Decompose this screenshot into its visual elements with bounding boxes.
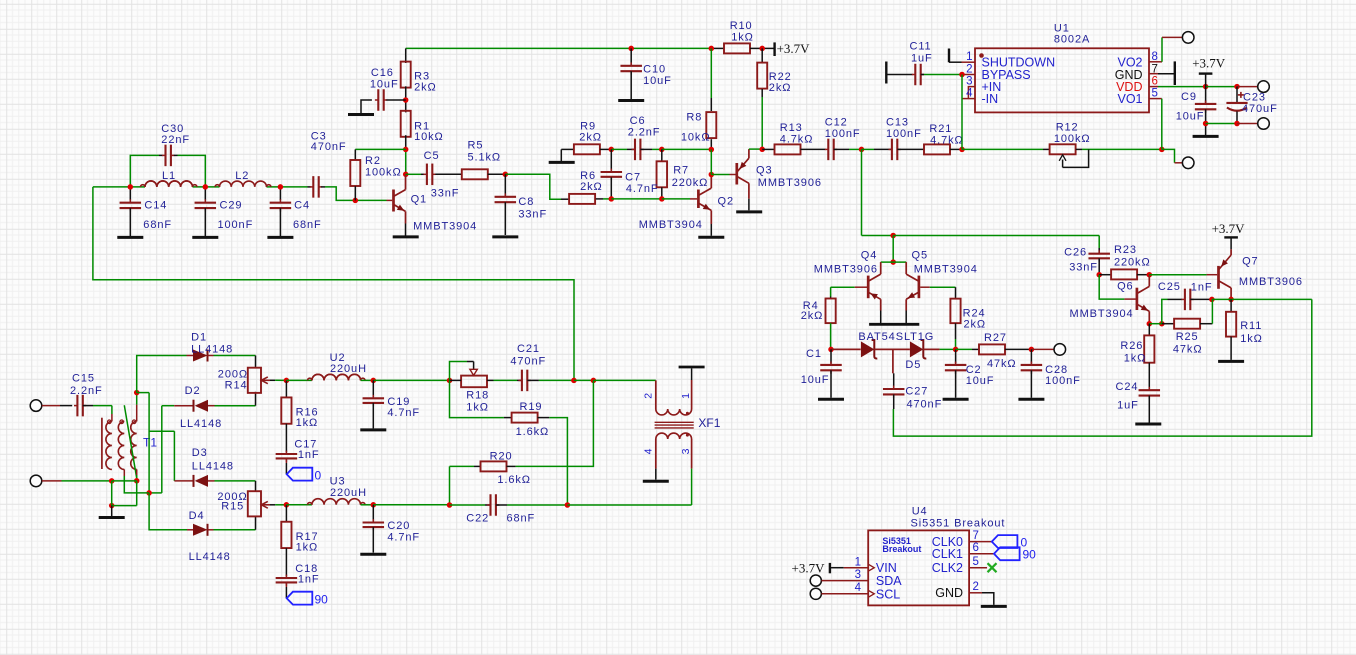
svg-text:C1: C1	[806, 348, 822, 360]
svg-text:2.2nF: 2.2nF	[70, 385, 103, 397]
svg-text:BAT54SLT1G: BAT54SLT1G	[858, 331, 934, 343]
svg-text:R11: R11	[1240, 320, 1262, 332]
svg-text:7: 7	[1152, 63, 1158, 75]
svg-text:2kΩ: 2kΩ	[579, 132, 602, 144]
svg-text:33nF: 33nF	[518, 208, 547, 220]
svg-text:10uF: 10uF	[801, 374, 830, 386]
svg-text:5.1kΩ: 5.1kΩ	[468, 152, 502, 164]
svg-text:R10: R10	[730, 20, 753, 32]
svg-text:3: 3	[855, 569, 861, 581]
svg-text:1.6kΩ: 1.6kΩ	[516, 426, 550, 438]
svg-text:2kΩ: 2kΩ	[964, 318, 987, 330]
svg-text:4: 4	[966, 87, 973, 99]
svg-text:MMBT3904: MMBT3904	[914, 263, 978, 275]
svg-text:D1: D1	[191, 331, 207, 343]
svg-text:Q5: Q5	[912, 249, 928, 261]
svg-text:4.7nF: 4.7nF	[387, 531, 420, 543]
svg-text:-IN: -IN	[982, 92, 999, 106]
svg-text:L2: L2	[235, 170, 249, 182]
svg-text:470nF: 470nF	[311, 141, 347, 153]
svg-text:R20: R20	[490, 450, 513, 462]
svg-text:R13: R13	[780, 122, 803, 134]
svg-text:CLK2: CLK2	[932, 561, 963, 575]
svg-text:10uF: 10uF	[1176, 110, 1205, 122]
svg-text:2kΩ: 2kΩ	[580, 181, 603, 193]
svg-text:C27: C27	[905, 386, 928, 398]
svg-text:C11: C11	[910, 40, 932, 52]
svg-text:R26: R26	[1120, 340, 1143, 352]
svg-text:R12: R12	[1056, 121, 1079, 133]
svg-text:100nF: 100nF	[886, 128, 922, 140]
svg-text:1kΩ: 1kΩ	[466, 402, 489, 414]
svg-text:4.7nF: 4.7nF	[626, 183, 659, 195]
svg-text:6: 6	[973, 542, 979, 554]
svg-text:C26: C26	[1064, 246, 1087, 258]
svg-text:1kΩ: 1kΩ	[1240, 333, 1263, 345]
svg-text:1uF: 1uF	[1117, 399, 1139, 411]
svg-text:68nF: 68nF	[507, 513, 536, 525]
svg-text:R5: R5	[468, 140, 484, 152]
svg-text:D4: D4	[189, 510, 205, 522]
svg-text:R21: R21	[929, 123, 952, 135]
svg-text:R9: R9	[580, 120, 596, 132]
svg-text:100kΩ: 100kΩ	[1054, 133, 1091, 145]
svg-text:VO1: VO1	[1117, 92, 1142, 106]
svg-text:U3: U3	[330, 476, 346, 488]
svg-text:LL4148: LL4148	[191, 344, 233, 356]
svg-text:R27: R27	[984, 332, 1007, 344]
svg-text:U4: U4	[912, 505, 928, 517]
svg-text:MMBT3906: MMBT3906	[758, 177, 822, 189]
svg-text:C29: C29	[220, 199, 243, 211]
svg-text:MMBT3904: MMBT3904	[639, 219, 703, 231]
svg-text:D3: D3	[192, 447, 208, 459]
svg-text:Q3: Q3	[756, 164, 772, 176]
svg-text:Si5351 Breakout: Si5351 Breakout	[911, 518, 1006, 530]
svg-text:90: 90	[315, 593, 329, 607]
svg-text:8002A: 8002A	[1054, 33, 1090, 45]
svg-text:C12: C12	[825, 117, 848, 129]
svg-text:2kΩ: 2kΩ	[801, 310, 824, 322]
svg-text:1: 1	[966, 51, 972, 63]
svg-text:C23: C23	[1243, 91, 1266, 103]
svg-text:L1: L1	[162, 170, 176, 182]
svg-text:MMBT3906: MMBT3906	[814, 263, 878, 275]
svg-text:2: 2	[643, 393, 655, 399]
svg-text:MMBT3904: MMBT3904	[1070, 308, 1134, 320]
svg-text:3: 3	[966, 75, 972, 87]
svg-text:1kΩ: 1kΩ	[296, 541, 319, 553]
svg-text:C20: C20	[387, 520, 410, 532]
svg-text:10uF: 10uF	[370, 78, 399, 90]
svg-text:C22: C22	[466, 513, 489, 525]
svg-text:4.7kΩ: 4.7kΩ	[780, 134, 814, 146]
svg-text:1: 1	[855, 556, 861, 568]
svg-text:1: 1	[680, 393, 692, 399]
svg-text:C25: C25	[1158, 281, 1181, 293]
svg-text:100kΩ: 100kΩ	[365, 166, 402, 178]
svg-text:1nF: 1nF	[298, 449, 320, 461]
svg-text:Q4: Q4	[861, 249, 877, 261]
svg-text:R19: R19	[520, 401, 543, 413]
svg-text:R6: R6	[580, 170, 596, 182]
svg-text:4: 4	[855, 582, 862, 594]
svg-text:0: 0	[315, 469, 322, 483]
svg-text:4.7kΩ: 4.7kΩ	[930, 135, 964, 147]
svg-text:+3.7V: +3.7V	[792, 561, 826, 576]
svg-text:C13: C13	[886, 117, 909, 129]
svg-text:D2: D2	[185, 385, 201, 397]
svg-text:SDA: SDA	[876, 574, 902, 588]
svg-text:C21: C21	[517, 343, 540, 355]
svg-text:220uH: 220uH	[330, 363, 367, 375]
svg-text:D5: D5	[905, 359, 921, 371]
svg-text:LL4148: LL4148	[192, 461, 234, 473]
svg-text:C8: C8	[518, 196, 534, 208]
svg-text:Q1: Q1	[411, 194, 427, 206]
svg-text:VIN: VIN	[876, 561, 897, 575]
svg-text:Q6: Q6	[1117, 281, 1133, 293]
svg-text:10kΩ: 10kΩ	[414, 131, 444, 143]
svg-text:4: 4	[643, 448, 655, 454]
svg-text:7: 7	[973, 530, 979, 542]
svg-text:XF1: XF1	[698, 416, 720, 430]
svg-text:220uH: 220uH	[330, 487, 367, 499]
svg-text:2: 2	[973, 581, 979, 593]
svg-text:GND: GND	[935, 586, 963, 600]
svg-text:Q2: Q2	[718, 195, 734, 207]
svg-text:1kΩ: 1kΩ	[731, 32, 754, 44]
svg-text:2: 2	[966, 63, 972, 75]
svg-text:1kΩ: 1kΩ	[1124, 353, 1147, 365]
svg-text:+3.7V: +3.7V	[1212, 221, 1246, 236]
svg-text:100nF: 100nF	[825, 128, 861, 140]
svg-text:+3.7V: +3.7V	[1192, 56, 1226, 71]
svg-text:R14: R14	[225, 380, 248, 392]
svg-text:3: 3	[680, 448, 692, 454]
svg-text:C14: C14	[144, 199, 167, 211]
svg-text:R8: R8	[686, 111, 702, 123]
svg-text:1uF: 1uF	[911, 52, 933, 64]
svg-text:47kΩ: 47kΩ	[1173, 343, 1203, 355]
svg-text:220kΩ: 220kΩ	[672, 177, 709, 189]
svg-text:Breakout: Breakout	[882, 544, 921, 554]
svg-text:LL4148: LL4148	[189, 551, 231, 563]
svg-text:C15: C15	[72, 373, 95, 385]
svg-text:10uF: 10uF	[643, 75, 672, 87]
svg-text:47kΩ: 47kΩ	[987, 358, 1017, 370]
svg-text:R2: R2	[365, 155, 381, 167]
svg-text:C4: C4	[294, 200, 310, 212]
svg-text:CLK1: CLK1	[932, 547, 963, 561]
svg-text:T1: T1	[143, 436, 157, 450]
svg-text:C7: C7	[625, 171, 641, 183]
svg-text:5: 5	[1152, 87, 1158, 99]
svg-text:2kΩ: 2kΩ	[414, 81, 437, 93]
svg-text:68nF: 68nF	[293, 219, 322, 231]
svg-text:1.6kΩ: 1.6kΩ	[497, 474, 531, 486]
svg-text:C9: C9	[1181, 91, 1197, 103]
svg-text:470nF: 470nF	[510, 356, 546, 368]
svg-text:C16: C16	[371, 67, 394, 79]
svg-text:8: 8	[1152, 51, 1158, 63]
svg-text:100nF: 100nF	[218, 219, 254, 231]
svg-text:100nF: 100nF	[1045, 375, 1081, 387]
svg-text:68nF: 68nF	[143, 219, 172, 231]
svg-text:MMBT3906: MMBT3906	[1239, 276, 1303, 288]
svg-text:2.2nF: 2.2nF	[628, 126, 661, 138]
svg-text:1nF: 1nF	[298, 573, 320, 585]
svg-text:C6: C6	[630, 115, 646, 127]
svg-text:LL4148: LL4148	[180, 418, 222, 430]
svg-text:R15: R15	[221, 501, 244, 513]
svg-text:+3.7V: +3.7V	[777, 41, 811, 56]
svg-text:Q7: Q7	[1242, 256, 1258, 268]
svg-text:90: 90	[1023, 548, 1037, 562]
svg-text:5: 5	[973, 556, 979, 568]
svg-text:4.7nF: 4.7nF	[387, 407, 420, 419]
svg-text:470nF: 470nF	[907, 398, 943, 410]
svg-text:2kΩ: 2kΩ	[769, 82, 792, 94]
svg-text:33nF: 33nF	[1069, 262, 1098, 274]
svg-text:220kΩ: 220kΩ	[1114, 257, 1151, 269]
svg-text:1nF: 1nF	[1191, 281, 1213, 293]
svg-text:C10: C10	[643, 64, 666, 76]
svg-text:1kΩ: 1kΩ	[296, 417, 319, 429]
svg-text:R7: R7	[673, 165, 689, 177]
svg-text:10kΩ: 10kΩ	[681, 131, 711, 143]
svg-text:C5: C5	[424, 150, 440, 162]
svg-text:R25: R25	[1176, 331, 1199, 343]
svg-text:10uF: 10uF	[966, 375, 995, 387]
svg-text:33nF: 33nF	[431, 187, 460, 199]
svg-text:6: 6	[1152, 75, 1158, 87]
svg-text:22nF: 22nF	[161, 134, 190, 146]
svg-text:470uF: 470uF	[1242, 103, 1278, 115]
svg-text:MMBT3904: MMBT3904	[413, 221, 477, 233]
svg-text:R18: R18	[466, 390, 489, 402]
svg-text:SCL: SCL	[876, 587, 900, 601]
svg-text:R23: R23	[1114, 244, 1137, 256]
svg-text:C24: C24	[1116, 381, 1139, 393]
